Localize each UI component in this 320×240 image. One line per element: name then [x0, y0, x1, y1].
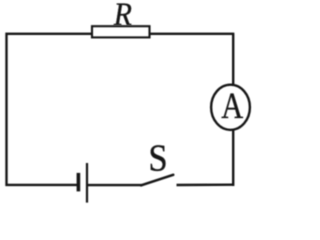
svg-text:S: S	[148, 137, 167, 179]
svg-text:A: A	[221, 86, 243, 127]
svg-text:R: R	[113, 0, 132, 33]
